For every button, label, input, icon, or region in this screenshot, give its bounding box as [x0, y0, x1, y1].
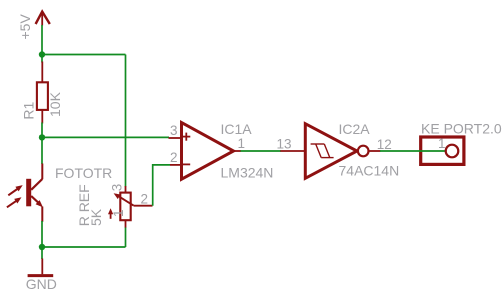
- wire inverter out to connector pin 1: [380, 150, 445, 152]
- wire junction B down to phototransistor collector: [41, 137, 43, 164]
- wire op-amp out to inverter in: [241, 150, 282, 152]
- ground symbol GND: [28, 259, 54, 276]
- wire junction C to GND: [41, 247, 43, 259]
- junction C (ground node): [39, 244, 45, 250]
- wiper arm with arrow: [116, 195, 134, 206]
- wire trimmer wiper to op-amp pin 2: [153, 165, 170, 206]
- svg-text:1: 1: [111, 209, 126, 217]
- svg-text:5K: 5K: [88, 208, 104, 226]
- wire vertical up to trimmer pin 1: [125, 227, 127, 247]
- output bubble: [358, 146, 369, 157]
- minus input mark: [182, 163, 190, 165]
- connector pin 1 circle: [446, 145, 459, 158]
- svg-text:1: 1: [438, 136, 446, 151]
- connector KE_PORT2.0 box: [421, 137, 464, 164]
- svg-text:KE PORT2.0: KE PORT2.0: [421, 121, 502, 137]
- svg-text:3: 3: [170, 123, 178, 138]
- wire junction A to R1 top: [41, 55, 43, 63]
- light arrow 1: [8, 189, 18, 196]
- svg-text:1: 1: [238, 136, 246, 151]
- svg-text:12: 12: [377, 137, 392, 152]
- light arrow 2: [7, 201, 17, 208]
- svg-text:LM324N: LM324N: [221, 165, 274, 181]
- adjustment arrow: [110, 213, 112, 219]
- wire +5V arrow to junction A: [41, 25, 43, 55]
- svg-text:2: 2: [170, 150, 178, 165]
- svg-text:74AC14N: 74AC14N: [339, 163, 400, 179]
- hysteresis mark: [311, 144, 334, 158]
- svg-text:GND: GND: [26, 276, 57, 292]
- junction A (+5V rail): [39, 51, 45, 57]
- svg-text:10K: 10K: [47, 91, 63, 117]
- op-amp IC1A: [169, 123, 242, 180]
- svg-text:IC1A: IC1A: [221, 121, 253, 137]
- supply symbol +5V arrow: [36, 12, 50, 26]
- wire junction B to op-amp pin 3: [42, 136, 169, 138]
- plus input mark: [182, 136, 190, 138]
- wire R1 bottom to junction B: [41, 123, 43, 138]
- wire emitter to junction C: [41, 221, 43, 247]
- svg-text:2: 2: [141, 192, 149, 207]
- wire vertical down to trimmer pin 3: [125, 55, 127, 187]
- svg-text:3: 3: [109, 184, 124, 192]
- svg-text:FOTOTR: FOTOTR: [55, 165, 112, 181]
- svg-text:13: 13: [276, 136, 291, 151]
- svg-text:IC2A: IC2A: [339, 121, 371, 137]
- wire junction A to pot branch (horizontal): [42, 54, 126, 56]
- wire junction C to trimmer pin 1 branch: [42, 246, 126, 248]
- resistor R1: [37, 62, 48, 124]
- svg-text:+5V: +5V: [17, 14, 33, 40]
- phototransistor FOTOTR: [7, 164, 43, 222]
- junction B (comparator + node): [39, 134, 45, 140]
- inverter IC2A: [280, 124, 380, 179]
- trimmer R_REF: [108, 186, 153, 228]
- svg-text:R1: R1: [20, 101, 36, 119]
